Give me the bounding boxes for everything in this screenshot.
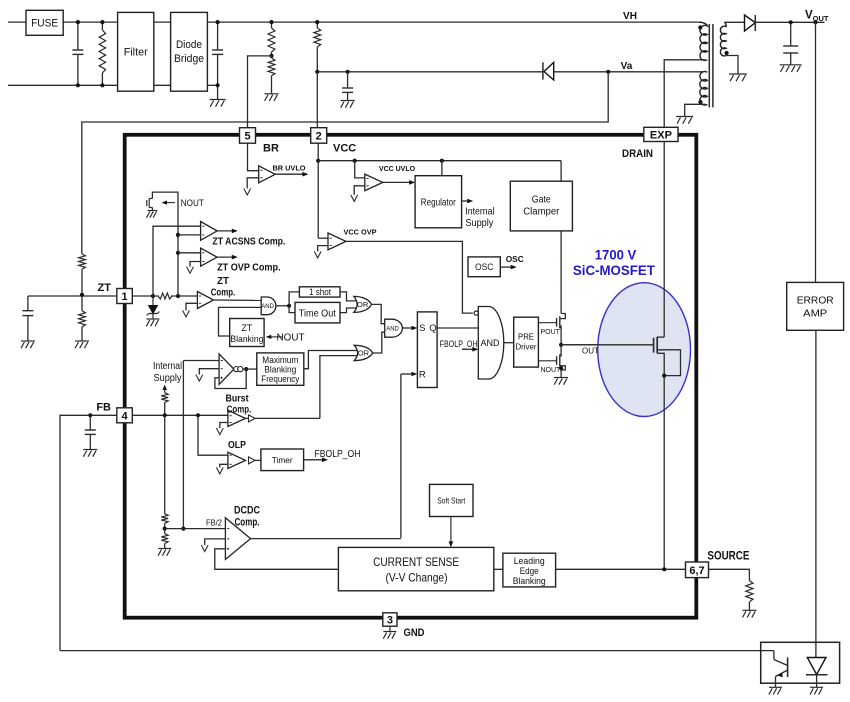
- wire source down: [663, 376, 665, 570]
- svg-text:EXP: EXP: [650, 129, 672, 141]
- svg-text:3: 3: [387, 614, 393, 626]
- svg-text:ZT: ZT: [98, 282, 112, 294]
- svg-text:Soft Start: Soft Start: [437, 495, 466, 505]
- resistor R-source: [746, 581, 753, 602]
- svg-text:POUT: POUT: [541, 329, 561, 336]
- wire pin5 to BR UVLO: [248, 143, 259, 171]
- wire OUT over ellipse: [561, 344, 654, 346]
- svg-text:1: 1: [121, 291, 127, 303]
- pin 3 GND: [383, 613, 397, 626]
- svg-text:NOUT: NOUT: [181, 198, 204, 208]
- svg-text:Timer: Timer: [272, 455, 293, 465]
- svg-text:Comp.: Comp.: [211, 287, 236, 299]
- svg-text:ERROR: ERROR: [797, 295, 834, 307]
- AND gate U-AND3 big: [478, 307, 503, 380]
- wire bridge to rail: [207, 21, 701, 23]
- wire ZT Comp minus ref: [186, 303, 197, 310]
- node VCC cap: [346, 70, 350, 74]
- node OUT: [559, 343, 563, 347]
- wire pin2 to VCC rail: [317, 143, 319, 238]
- capacitor C-ZT: [27, 296, 29, 311]
- wire ZT Comp output to AND1: [214, 299, 262, 301]
- AND3 inverted input bubble: [474, 311, 478, 315]
- node Vout: [813, 20, 817, 24]
- node BR divider top: [269, 20, 273, 24]
- diode D-VCC: [544, 62, 554, 80]
- resistor R-FB pullup: [161, 393, 168, 403]
- pin 2 VCC: [311, 128, 327, 144]
- SiC MOSFET ellipse: [598, 283, 691, 417]
- switch NOUT clamp: [149, 198, 152, 200]
- wire DCDC output: [251, 538, 401, 540]
- comparator input marks: [260, 169, 262, 171]
- comparator BR UVLO: [259, 166, 276, 183]
- reference arrow ZT OVP: [187, 267, 194, 274]
- svg-text:AND: AND: [261, 304, 274, 310]
- ground secondary: [729, 73, 747, 75]
- OLP output buffer: [249, 457, 256, 464]
- node VCC-UVLO tap: [353, 159, 357, 163]
- node ACSNS minus tap: [176, 233, 180, 237]
- wire ZT to ACSNS plus: [153, 226, 201, 296]
- svg-text:Gate: Gate: [532, 195, 551, 206]
- svg-text:Internal: Internal: [153, 361, 182, 372]
- capacitor C-out: [790, 22, 792, 46]
- wire OLP minus ref: [220, 464, 228, 467]
- svg-text:VCC: VCC: [333, 143, 356, 155]
- reference arrow Burst: [216, 428, 223, 435]
- wire FB external: [60, 415, 117, 650]
- wire DCDC mid ref: [205, 539, 226, 545]
- diode bridge block: [171, 12, 208, 91]
- svg-text:Regulator: Regulator: [421, 198, 457, 209]
- wire BR UVLO output: [275, 173, 305, 175]
- wire bridge bottom to ground node: [207, 84, 217, 86]
- wire filter to bridge bottom: [154, 84, 171, 86]
- wire source pin to resistor: [709, 569, 750, 580]
- svg-text:Blanking: Blanking: [264, 364, 296, 374]
- ground BR divider: [265, 93, 279, 95]
- wire VCC UVLO minus ref: [354, 186, 365, 195]
- POUT pmos: [560, 314, 566, 319]
- wire ZT ACSNS output: [217, 230, 235, 232]
- svg-text:Blanking: Blanking: [513, 576, 546, 587]
- reference arrow DCDC: [201, 545, 208, 552]
- ground R-source: [742, 609, 756, 611]
- wire R from DCDC: [400, 374, 402, 538]
- wire Vout down to error amp: [815, 22, 817, 282]
- maximum blanking frequency block: [257, 353, 304, 385]
- wire filter to bridge top: [154, 21, 171, 23]
- svg-text:ZT: ZT: [217, 275, 230, 287]
- svg-text:OLP: OLP: [228, 439, 246, 451]
- wire TimeOut to OR1: [340, 308, 360, 313]
- IC boundary: [125, 135, 697, 618]
- mosfet Q1 SiC: [653, 338, 655, 353]
- wire ZT external: [28, 295, 117, 297]
- node regulator tap: [440, 159, 444, 163]
- svg-text:Comp.: Comp.: [227, 403, 252, 415]
- wire ZT internal to comparators: [152, 192, 178, 296]
- pin 6,7 SOURCE: [686, 562, 709, 578]
- node hyst out: [244, 367, 248, 371]
- AND gate U-AND2: [385, 319, 403, 337]
- wire BR divider to pin 5: [248, 56, 272, 128]
- wire LEB to source pin: [556, 568, 686, 570]
- opto phototransistor: [773, 651, 775, 660]
- resistor R-in1: [101, 22, 103, 30]
- wire Burst to OR2: [320, 356, 361, 419]
- transformer core: [708, 24, 710, 107]
- wire VCC to regulator: [441, 161, 443, 176]
- comparator DCDC: [225, 518, 250, 560]
- svg-text:ZT: ZT: [241, 323, 252, 333]
- ground bulk: [210, 99, 226, 101]
- ground GND pin: [389, 626, 391, 631]
- svg-text:OSC: OSC: [475, 262, 494, 273]
- wire hyst plus from FB2: [183, 360, 219, 362]
- svg-text:(V-V Change): (V-V Change): [386, 571, 448, 585]
- wire hyst feedback: [215, 369, 246, 388]
- svg-text:FBOLP_OH: FBOLP_OH: [315, 449, 361, 460]
- wire OR2 to AND2: [373, 332, 385, 353]
- wire BR UVLO minus ref: [247, 178, 259, 189]
- resistor R-BR upper: [271, 22, 273, 28]
- node VCC rail: [316, 159, 320, 163]
- aux phase dot: [698, 100, 702, 104]
- comparator OLP: [228, 452, 246, 468]
- wire R input: [401, 373, 415, 375]
- wire VCC UVLO output: [383, 181, 412, 183]
- reference arrow ZT Comp: [183, 310, 190, 317]
- ground zener: [147, 318, 160, 320]
- pin 1 ZT: [117, 289, 133, 304]
- node FB/2: [163, 527, 167, 531]
- reference arrow BR UVLO: [244, 189, 251, 196]
- capacitor C-VCC: [347, 72, 349, 88]
- node bulk cap top: [216, 20, 220, 24]
- transformer T1 aux winding: [700, 72, 707, 106]
- svg-text:Internal: Internal: [465, 207, 494, 218]
- gate clamper block: [510, 181, 572, 231]
- wire aux bottom to ground: [685, 104, 706, 116]
- wire FB pullup down to divider: [164, 415, 166, 513]
- ground VCC cap: [341, 100, 355, 102]
- wire FB into IC: [132, 414, 228, 416]
- arrow NOUT to ZT blanking: [268, 336, 283, 338]
- zener D-ZT: [152, 296, 154, 306]
- wire FB2 to DCDC: [165, 528, 226, 530]
- wire secondary bottom to ground: [726, 56, 738, 75]
- ground opto transistor: [769, 686, 782, 688]
- svg-text:Driver: Driver: [516, 342, 537, 352]
- NOUT nmos: [560, 345, 561, 356]
- ground output cap: [780, 64, 802, 66]
- node FB pullup: [163, 413, 167, 417]
- output diode D-out: [745, 15, 756, 31]
- node VCC resistor top: [315, 20, 319, 24]
- svg-text:OUT: OUT: [582, 347, 599, 356]
- error amp block: [787, 282, 844, 330]
- svg-text:OR: OR: [358, 349, 370, 358]
- reference arrow VCC OVP: [314, 251, 321, 258]
- svg-text:BR UVLO: BR UVLO: [273, 164, 306, 173]
- svg-text:1700 V: 1700 V: [595, 246, 637, 262]
- ground FB divider: [158, 548, 171, 550]
- wire VCC OVP output to AND gate bubble: [346, 241, 473, 313]
- wire MBF to OR2: [304, 351, 361, 369]
- hyst comp output circles: [234, 367, 239, 372]
- node resistor top: [100, 20, 104, 24]
- svg-text:SOURCE: SOURCE: [707, 551, 749, 563]
- wire gate clamper to POUT fet: [560, 231, 562, 314]
- comparator ZT Comp: [178, 295, 197, 297]
- transformer T1 primary winding: [700, 22, 708, 60]
- svg-text:VH: VH: [623, 11, 637, 22]
- wire secondary top to output diode: [724, 21, 744, 23]
- svg-text:OSC: OSC: [506, 254, 524, 264]
- resistor R-ZT upper: [79, 254, 86, 269]
- wire AND2 to S input: [402, 327, 414, 329]
- wire Va down to aux loop: [82, 72, 608, 254]
- optocoupler box: [761, 642, 840, 683]
- wire Va: [554, 71, 704, 73]
- svg-text:SiC-MOSFET: SiC-MOSFET: [573, 262, 655, 278]
- ground ZT divider: [75, 340, 89, 342]
- node FB cap: [88, 413, 92, 417]
- svg-text:FUSE: FUSE: [31, 18, 58, 30]
- svg-text:Bridge: Bridge: [174, 53, 204, 65]
- node ZT OVP plus tap: [176, 251, 180, 255]
- node ZT zener: [151, 294, 155, 298]
- capacitor C-FB: [89, 415, 91, 430]
- svg-text:Supply: Supply: [465, 218, 493, 229]
- node FB2 tap: [181, 527, 185, 531]
- pin EXP: [644, 127, 678, 141]
- bottom AC line wire: [8, 84, 118, 86]
- svg-text:PRE: PRE: [518, 332, 534, 342]
- fuse F1: [26, 10, 63, 35]
- wire ZT blanking to AND1: [219, 307, 262, 336]
- wire OLP to Timer: [255, 459, 261, 461]
- node AND1 out: [287, 304, 291, 308]
- svg-text:BR: BR: [263, 143, 279, 155]
- svg-text:ZT OVP Comp.: ZT OVP Comp.: [217, 262, 281, 274]
- reference arrow hyst: [196, 375, 203, 382]
- node output cap: [789, 20, 793, 24]
- svg-text:FBOLP_OH: FBOLP_OH: [440, 339, 478, 349]
- wire FB bottom to opto: [60, 650, 774, 652]
- transformer T1 secondary winding: [720, 22, 726, 56]
- svg-text:AND: AND: [481, 338, 501, 348]
- svg-text:Maximum: Maximum: [262, 355, 298, 365]
- svg-text:2: 2: [316, 130, 322, 142]
- wire error amp to opto LED: [815, 330, 817, 657]
- pin 5 BR: [240, 128, 256, 144]
- capacitor C-in1: [77, 22, 79, 50]
- wire ZT OVP minus ref: [190, 262, 201, 267]
- resistor R-FB div upper: [161, 514, 168, 524]
- wire diode to Vout: [755, 21, 824, 23]
- ground C-FB: [83, 449, 97, 451]
- svg-text:GND: GND: [404, 627, 425, 639]
- wire Timer output: [304, 459, 325, 461]
- wire VCC OVP minus ref: [318, 246, 328, 252]
- svg-text:S: S: [419, 323, 425, 334]
- wire FB2 to hyst comp: [182, 361, 184, 529]
- resistor R-ZT lower: [81, 295, 83, 311]
- node mosfet source: [662, 374, 666, 378]
- svg-text:ZT ACSNS Comp.: ZT ACSNS Comp.: [212, 236, 285, 248]
- wire to Time Out: [289, 306, 295, 313]
- comparator VCC UVLO: [365, 174, 383, 191]
- svg-text:5: 5: [244, 130, 250, 142]
- wire fuse to filter: [63, 21, 117, 23]
- node cap bottom: [76, 83, 80, 87]
- OR gate U-OR1: [354, 296, 372, 312]
- wire to 1shot: [289, 292, 299, 306]
- leading edge blanking block: [503, 553, 556, 587]
- node Va-VCC junction: [315, 70, 319, 74]
- OR gate U-OR2: [354, 345, 372, 360]
- wire soft start to current sense: [450, 517, 452, 545]
- node bulk cap bottom: [216, 83, 220, 87]
- node Va tap: [606, 70, 610, 74]
- wire current sense to LEB: [494, 568, 503, 570]
- ground aux winding: [676, 116, 693, 118]
- current sense block: [338, 547, 493, 590]
- wire AND3 to PRE driver: [504, 342, 514, 344]
- svg-text:Supply: Supply: [154, 373, 182, 384]
- wire VCC rail to gate clamper: [560, 161, 562, 182]
- primary phase dot: [698, 25, 702, 29]
- wire OUT to mosfet gate: [561, 344, 654, 346]
- svg-text:Diode: Diode: [176, 39, 202, 51]
- soft start block: [430, 484, 474, 516]
- wire pin1 into IC: [132, 295, 153, 297]
- wire primary bottom to EXP: [664, 60, 705, 128]
- resistor R-ZT series: [158, 293, 172, 299]
- wire FB to OLP: [198, 415, 228, 455]
- Burst output buffer: [249, 415, 256, 422]
- node ZT divider: [80, 293, 84, 297]
- capacitor C-bulk: [217, 22, 219, 50]
- wire VCC OVP plus: [318, 237, 328, 239]
- wire VCC node to pin 2: [316, 72, 318, 128]
- wire hyst mid ref: [199, 369, 219, 375]
- reference arrow OLP: [216, 467, 223, 474]
- AND gate U-AND1: [261, 297, 276, 315]
- node BR divider mid: [269, 54, 273, 58]
- wire Q to AND3: [437, 327, 478, 329]
- block 1 shot: [299, 287, 340, 297]
- regulator block: [415, 176, 462, 228]
- wire regulator output: [462, 200, 471, 202]
- svg-text:OR: OR: [357, 300, 369, 309]
- svg-text:VCC OVP: VCC OVP: [344, 228, 377, 237]
- svg-text:NOUT: NOUT: [541, 367, 562, 374]
- secondary phase dot: [725, 51, 729, 55]
- reference arrow VCC UVLO: [351, 195, 358, 202]
- wire ZT OVP plus: [178, 252, 201, 254]
- oscillator block OSC: [468, 257, 500, 277]
- svg-text:Filter: Filter: [124, 47, 148, 59]
- ground NOUT switch: [147, 210, 157, 212]
- wire OSC output: [500, 266, 513, 268]
- wire OR1 to AND2: [372, 304, 385, 323]
- svg-text:4: 4: [121, 410, 128, 422]
- block Time Out: [295, 302, 340, 323]
- ZT blanking block: [230, 319, 264, 347]
- opto LED: [807, 658, 826, 675]
- node fuse-cap top: [76, 20, 80, 24]
- wire DCDC plus loop: [215, 549, 339, 570]
- ground opto LED: [810, 686, 823, 688]
- svg-text:Va: Va: [621, 61, 633, 72]
- wire drain from EXP: [663, 142, 665, 338]
- svg-text:FB/2: FB/2: [206, 518, 223, 527]
- wire 1shot to OR1: [340, 292, 360, 301]
- wire AND1 output: [276, 305, 289, 307]
- svg-text:AMP: AMP: [803, 308, 827, 320]
- svg-text:VCC UVLO: VCC UVLO: [379, 164, 415, 173]
- hysteresis comparator burst freq: [219, 354, 234, 385]
- top AC line wire: [8, 21, 26, 23]
- resistor R-VCC: [316, 22, 318, 28]
- resistor R-FB div lower: [164, 529, 166, 534]
- wire Burst minus ref: [220, 423, 228, 429]
- svg-text:CURRENT SENSE: CURRENT SENSE: [373, 555, 459, 569]
- node source junction: [662, 567, 666, 571]
- wire ZT OVP output: [217, 256, 235, 258]
- filter block: [118, 12, 154, 91]
- internal supply arrow: [164, 387, 166, 393]
- svg-text:Time Out: Time Out: [299, 308, 336, 319]
- node burst branch: [196, 413, 200, 417]
- svg-text:Frequency: Frequency: [261, 374, 299, 384]
- wire Burst output: [246, 417, 249, 419]
- svg-text:1 shot: 1 shot: [309, 287, 331, 297]
- svg-text:Blanking: Blanking: [230, 334, 263, 344]
- Timer block: [261, 449, 304, 471]
- resistor R-BR lower: [271, 56, 273, 58]
- svg-text:Clamper: Clamper: [523, 207, 560, 218]
- wire FBOLP_OH into AND3: [462, 348, 476, 350]
- SR latch: [417, 312, 437, 388]
- node NOUT: [559, 366, 563, 370]
- comparator Burst: [228, 410, 246, 426]
- svg-text:DCDC: DCDC: [234, 505, 260, 517]
- svg-text:Comp.: Comp.: [235, 517, 260, 529]
- wire ACSNS minus: [178, 234, 201, 236]
- svg-text:NOUT: NOUT: [277, 332, 306, 344]
- svg-text:DRAIN: DRAIN: [622, 148, 653, 160]
- ground NOUT driver: [554, 377, 568, 379]
- pin 4 FB: [117, 408, 133, 423]
- comparator ZT ACSNS: [201, 222, 218, 241]
- svg-text:R: R: [419, 369, 426, 380]
- ground C-ZT: [21, 340, 35, 342]
- wire VCC UVLO plus: [355, 161, 365, 178]
- svg-text:Q: Q: [429, 323, 436, 334]
- svg-text:6,7: 6,7: [689, 565, 704, 577]
- svg-text:FB: FB: [96, 402, 111, 414]
- comparator ZT OVP: [201, 248, 218, 266]
- svg-text:AND: AND: [386, 326, 399, 332]
- wire VCC node to diode: [317, 71, 543, 73]
- node resistor bottom: [100, 83, 104, 87]
- wire hyst out to MBF: [243, 368, 257, 370]
